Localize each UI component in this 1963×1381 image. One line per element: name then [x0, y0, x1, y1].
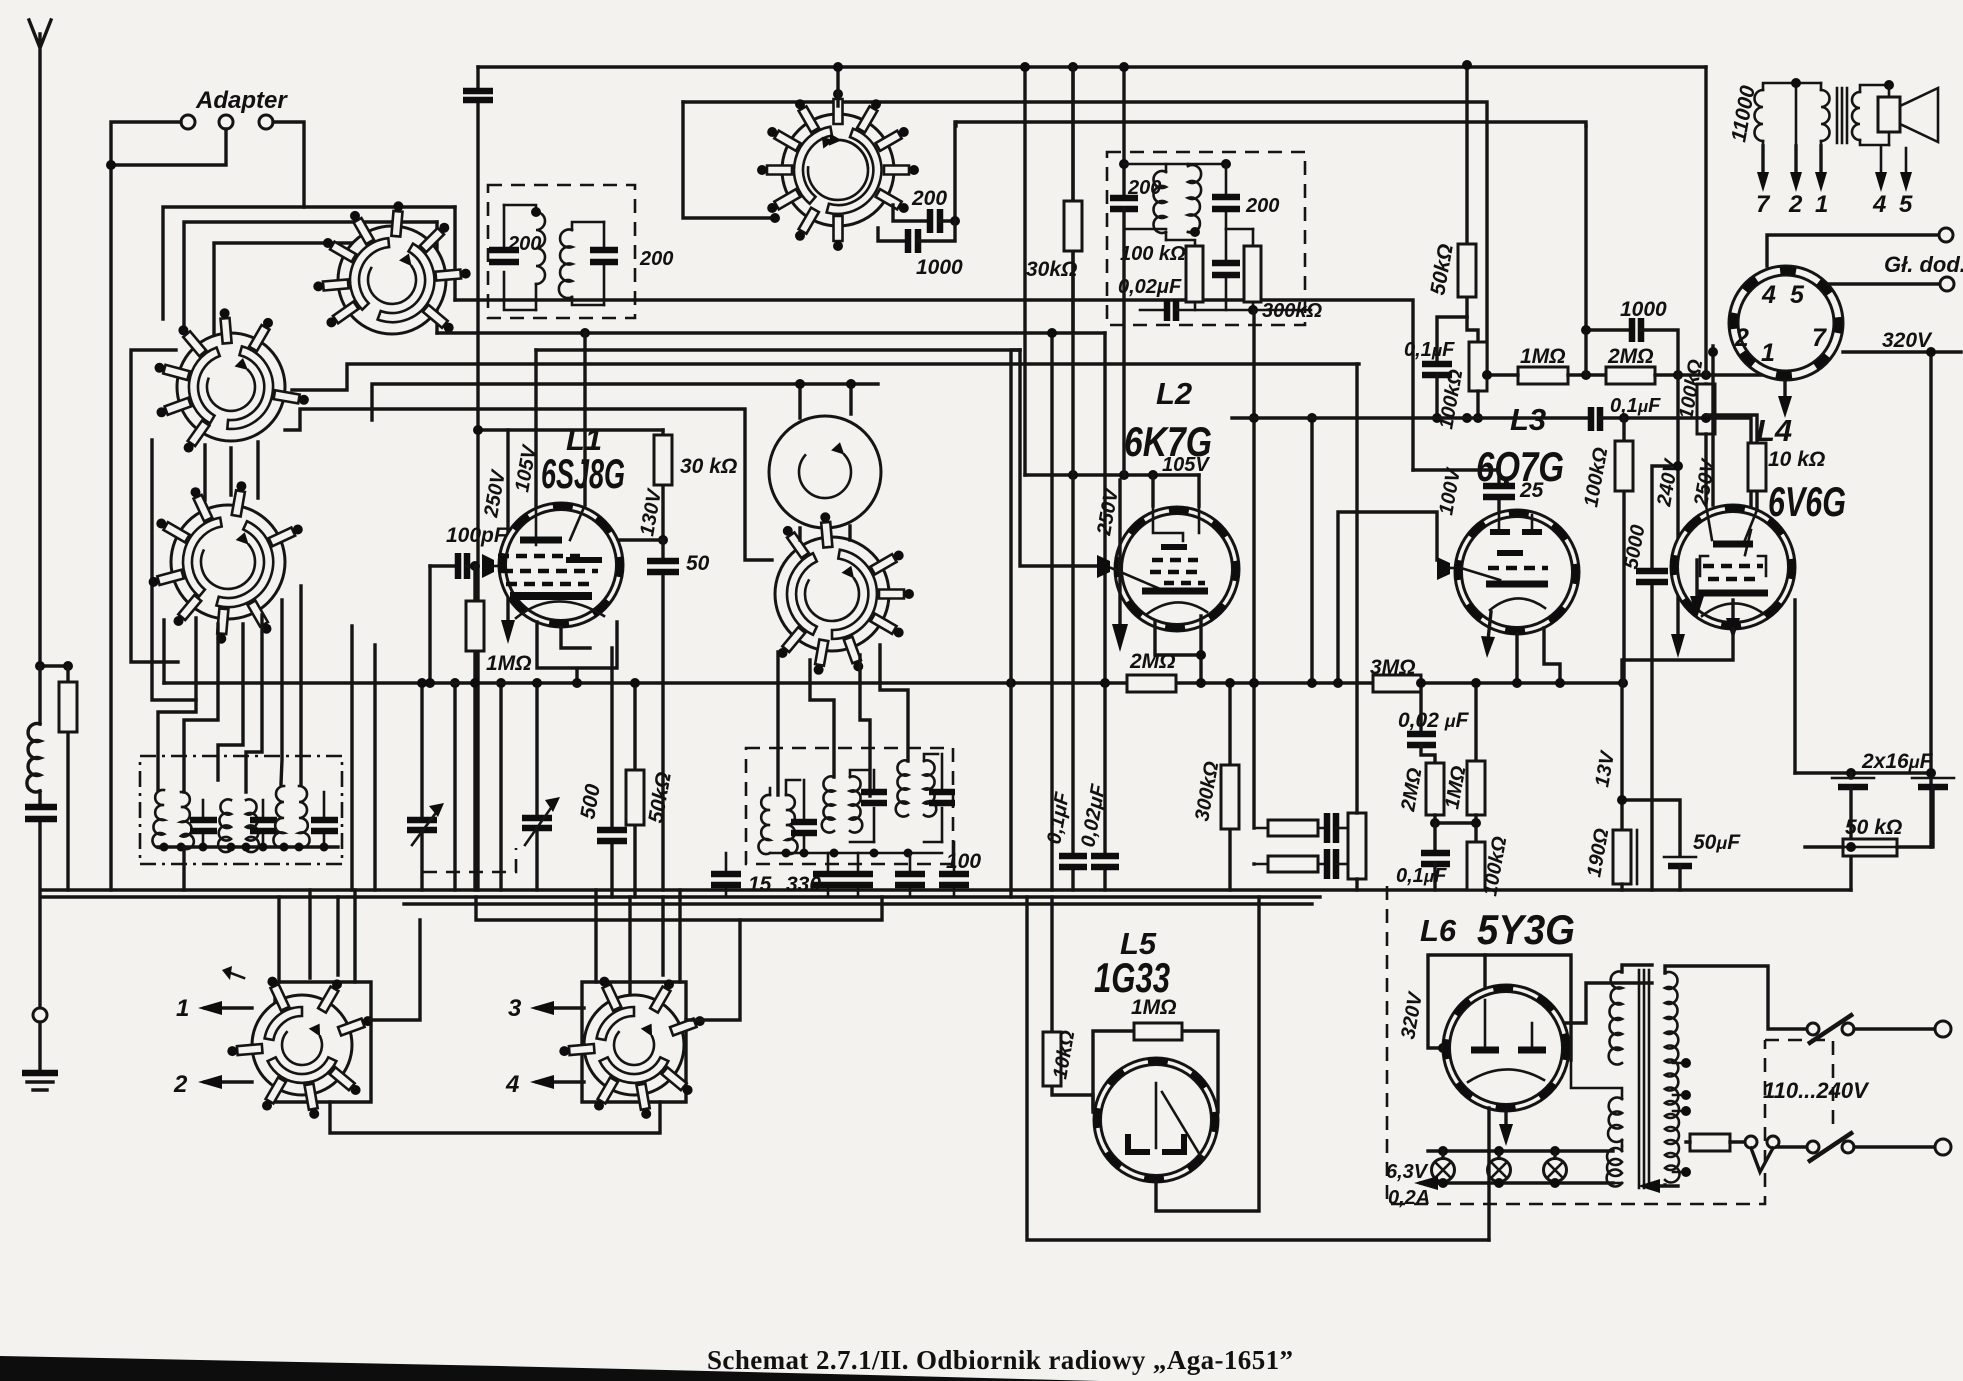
wire socket top [1767, 235, 1939, 266]
svg-text:50: 50 [686, 552, 710, 575]
capacitor 1000 (osc) [908, 229, 918, 253]
resistor (antenna shunt) [66, 666, 69, 890]
svg-text:0,2A: 0,2A [1388, 1187, 1430, 1209]
terminal adapter 2 [219, 115, 233, 129]
wire x1124 feed [1122, 67, 1125, 197]
wire S8 feeds [596, 890, 680, 1008]
wire S5-S6 links [800, 526, 850, 540]
wire y430 [478, 428, 663, 431]
svg-text:330: 330 [786, 873, 821, 896]
wire L6 bottom arrow [1504, 1111, 1507, 1128]
resistor 30kOhm (AGC) [1071, 67, 1074, 330]
wire arrow 4 [537, 1080, 584, 1083]
power transformer core [1639, 970, 1649, 1188]
resistor 1MOhm (grid leak) [1518, 367, 1568, 384]
inductor heater winding 1 [1608, 1098, 1622, 1142]
wire adapter right [273, 122, 304, 207]
wire x683 down [683, 102, 775, 218]
transformer core [1837, 88, 1847, 143]
svg-text:2x16μF: 2x16μF [1861, 750, 1934, 773]
capacitor det b [1327, 849, 1336, 879]
rotary switch S4 [757, 89, 919, 251]
svg-text:200: 200 [639, 248, 673, 270]
wire L3 cathode arrow [1488, 612, 1491, 640]
svg-text:0,02μF: 0,02μF [1118, 276, 1182, 298]
capacitor 100 [953, 842, 956, 897]
capacitor IF2 c3 [941, 754, 944, 842]
capacitor 0,1uF (coupling) [1591, 407, 1600, 431]
capacitor top-left [476, 67, 479, 890]
wire L1 plate feed [583, 333, 586, 505]
resistor mains dropper [1690, 1134, 1730, 1151]
wire S6 bottom feeds [778, 645, 908, 796]
capacitor 50 [661, 540, 664, 890]
wire S7 box [275, 982, 371, 1102]
capacitor 5000 [1652, 466, 1678, 890]
wire screen bus y475 [1025, 473, 1199, 476]
inductor IF1 primary [504, 205, 536, 212]
wire transformer arrows [1763, 146, 1821, 178]
svg-text:1000: 1000 [916, 256, 963, 279]
svg-text:4: 4 [1761, 281, 1776, 309]
resistor 2MOhm [1127, 675, 1176, 692]
wire IF1 connections [504, 300, 536, 310]
resistor IF3 100k [1186, 246, 1203, 302]
resistor 10kOhm (L5) [1052, 897, 1093, 1108]
rotary switch S3 [149, 481, 303, 644]
inductor primary winding [1665, 972, 1680, 1182]
svg-text:10 kΩ: 10 kΩ [1768, 448, 1825, 471]
wire adapter middle [111, 129, 226, 165]
wire L6 top feeds [1485, 955, 1652, 1046]
resistor 190 Ohm [1613, 830, 1631, 884]
inductor IF2 c1a [758, 795, 770, 854]
capacitor band 3 [323, 792, 326, 847]
wire S2-S3 links [205, 442, 258, 500]
wire primary top [1665, 966, 1806, 1029]
wire x1025 [1023, 67, 1026, 475]
svg-text:50 kΩ: 50 kΩ [1845, 816, 1902, 839]
wire L2 bottom [1155, 616, 1201, 683]
capacitor IF3 mid [1225, 229, 1228, 310]
wire arrow 2 [205, 1080, 252, 1083]
inductor band coil 3b [299, 786, 310, 848]
capacitor 200 (osc) [930, 209, 940, 233]
wire IF3 mid [1124, 229, 1195, 246]
inductor IF2 c3a [896, 760, 908, 816]
svg-text:Adapter: Adapter [195, 87, 288, 114]
svg-text:1MΩ: 1MΩ [1520, 345, 1566, 368]
inductor band coil 3a [273, 786, 284, 848]
svg-text:30kΩ: 30kΩ [1026, 258, 1077, 281]
wire x1489 from y1240 [1487, 1108, 1490, 1240]
capacitor det a [1327, 813, 1336, 843]
wire antenna branch [40, 664, 68, 667]
resistor 100kOhm [1467, 317, 1478, 342]
resistor 10kOhm [1706, 415, 1757, 510]
wire 250V rail [1711, 346, 1714, 505]
wire bottom loop [476, 897, 882, 920]
wire socket second [1810, 284, 1940, 297]
grid cap L1 [482, 554, 494, 578]
wire 320V rail [1843, 352, 1961, 847]
lamp 3 [1550, 1146, 1560, 1156]
wire S7 feeds [279, 890, 355, 982]
inductor output primary [1755, 90, 1764, 141]
svg-text:5: 5 [1899, 191, 1913, 218]
wire adapter left [111, 122, 181, 890]
svg-text:0,1μF: 0,1μF [1396, 865, 1447, 887]
svg-text:4: 4 [505, 1071, 519, 1098]
svg-text:5Y3G: 5Y3G [1477, 906, 1575, 953]
wire L3 grid feed [1338, 512, 1437, 683]
capacitor 0,1uF (L2 cathode) [1059, 856, 1087, 867]
svg-text:0,1μF: 0,1μF [1610, 395, 1661, 417]
wire S8 box [582, 982, 686, 1102]
node antenna/coil junction [35, 661, 45, 671]
svg-text:100pF: 100pF [446, 524, 508, 547]
wire band box bottom [158, 845, 338, 848]
capacitor 0,1uF (det) [1437, 317, 1467, 363]
capacitor (antenna series) [38, 791, 41, 1008]
capacitor row d [909, 853, 912, 897]
capacitor 0,1uF (bias) [1433, 823, 1436, 852]
capacitor 1000 (L3) [1586, 330, 1629, 375]
rotary switch S6 [775, 512, 914, 675]
wire S2-S3 left harness [131, 350, 178, 662]
wire S4 to cap 200 [893, 205, 926, 221]
inductor IF2 c2a [822, 776, 834, 832]
svg-text:2: 2 [1788, 191, 1803, 218]
resistor 2MOhm (bias) [1426, 763, 1444, 815]
wire AVC line [164, 681, 1623, 684]
capacitor 2x16uF b [1912, 777, 1954, 780]
wire y773 [1795, 771, 1931, 774]
wire x1011 [1011, 350, 1020, 897]
terminal adapter 3 [259, 115, 273, 129]
wire HV winding top [1622, 965, 1652, 972]
wire S4 to cap 1000 [878, 228, 904, 241]
wire ground bus 2 [42, 895, 1320, 898]
capacitor 500 [610, 648, 613, 897]
svg-text:2MΩ: 2MΩ [1607, 345, 1654, 368]
resistor 50kOhm (osc) [633, 683, 636, 897]
inductor HV secondary [1609, 972, 1622, 1065]
wire y350 [536, 348, 1020, 351]
svg-text:Schemat 2.7.1/II. Odbiornik: Schemat 2.7.1/II. Odbiornik radiowy „Aga… [707, 1345, 1293, 1375]
terminal Gl.dod 1 [1939, 228, 1953, 242]
wire heater top [1428, 1149, 1613, 1152]
capacitor IF2 c2 [873, 770, 876, 842]
wire below switch boxes [330, 1102, 660, 1133]
svg-text:2: 2 [1734, 324, 1749, 352]
voltage selector [1745, 1136, 1757, 1148]
inductor band coil 1a [152, 790, 164, 848]
svg-text:1MΩ: 1MΩ [1131, 996, 1177, 1019]
wire IF3 top link [1124, 163, 1226, 166]
wire top bus B+ [478, 65, 1706, 68]
wire S3 to band box feeds [158, 618, 196, 790]
inductor heater winding 2 [1607, 1148, 1622, 1186]
resistor 1MOhm (L5 leak) [1093, 1031, 1218, 1112]
wire S5 top stubs [800, 384, 851, 418]
wire S1 loop c [163, 207, 455, 319]
capacitor row c [857, 853, 860, 897]
wire speaker arrows [1881, 146, 1906, 178]
wire primary tap [1795, 83, 1798, 146]
svg-text:300kΩ: 300kΩ [1262, 300, 1322, 322]
capacitor band 1 [202, 800, 205, 847]
wire IF2 bottoms [770, 842, 942, 853]
dashed box power [1387, 886, 1765, 1204]
svg-text:L2: L2 [1156, 376, 1192, 411]
resistor det b [1268, 856, 1318, 872]
inductor IF3 secondary [1188, 165, 1201, 233]
terminal adapter 1 [181, 115, 195, 129]
tube L4 [1671, 505, 1795, 640]
inductor IF3 primary [1154, 171, 1167, 233]
svg-text:200: 200 [1245, 195, 1279, 217]
capacitor 2x16uF a [1832, 777, 1874, 780]
capacitor 0,02uF (L3 bias) [1419, 683, 1422, 733]
wire plate rail x1706 [1704, 67, 1707, 384]
wire 100pF left lead [428, 566, 431, 683]
wire bias node [1435, 815, 1476, 842]
socket (top view) [1729, 266, 1843, 380]
rotary switch S1 [313, 201, 470, 334]
wire long mid y364 [292, 364, 1359, 390]
capacitor IF2 c1 [803, 780, 806, 853]
grid cap L2 [1097, 555, 1110, 578]
svg-text:1: 1 [176, 995, 189, 1022]
svg-text:15: 15 [748, 873, 772, 896]
resistor 1MOhm (bias) [1474, 683, 1477, 761]
inductor IF2 c3b [924, 760, 936, 816]
wire 300k down [1252, 310, 1255, 864]
primary taps [1673, 1063, 1686, 1172]
terminal Gl.dod 2 [1940, 277, 1954, 291]
capacitor 50uF [1622, 800, 1680, 856]
svg-text:1: 1 [1815, 191, 1828, 218]
wire L2 cathode arrow [1118, 480, 1121, 628]
terminal (earth connector) [33, 1008, 47, 1022]
lamp 2 [1494, 1146, 1504, 1156]
capacitor 330 [827, 853, 830, 897]
tube L5 [1094, 1058, 1218, 1182]
capacitor IF1 right [603, 222, 606, 305]
tube L3 [1455, 510, 1579, 634]
wire S1 right leads [437, 207, 455, 333]
resistor det a [1268, 820, 1318, 836]
svg-text:200: 200 [507, 233, 541, 255]
lamp 1 [1438, 1146, 1448, 1156]
wire gang dashed link [422, 848, 516, 872]
capacitor 15 [725, 853, 728, 897]
svg-text:0,1μF: 0,1μF [1404, 339, 1455, 361]
capacitor 100pF [430, 564, 455, 567]
node 130V [658, 535, 668, 545]
wire L1 bottom [537, 622, 617, 683]
inductor IF1 secondary [559, 230, 572, 299]
resistor 3MOhm [1373, 675, 1421, 692]
resistor 100kOhm (L4 grid) [1697, 384, 1715, 434]
svg-text:2MΩ: 2MΩ [1129, 650, 1176, 673]
wire y102 [683, 102, 1487, 375]
wire arrow 1 [205, 1006, 252, 1009]
wire S4 top feed [836, 67, 839, 106]
svg-text:7: 7 [1756, 191, 1771, 218]
variable capacitor VC1 [420, 683, 423, 818]
svg-text:3: 3 [508, 995, 522, 1022]
wire x1052 long [1050, 333, 1053, 890]
wire arrow 3 [537, 1006, 584, 1009]
switch mains a [1807, 1023, 1819, 1035]
svg-text:105V: 105V [1162, 454, 1210, 476]
tube L1 [498, 503, 623, 627]
resistor 1 MOhm [473, 566, 476, 890]
svg-text:320V: 320V [1882, 329, 1933, 352]
resistor 2MOhm (grid) [1606, 367, 1655, 384]
svg-text:Gł. dod.: Gł. dod. [1884, 252, 1963, 277]
svg-text:1G33: 1G33 [1094, 954, 1170, 1001]
inductor band coil 2b [246, 799, 259, 852]
wire L4 right [1793, 600, 1796, 773]
resistor 50kOhm [1465, 65, 1468, 317]
rotary switch S5 [769, 416, 881, 528]
wire S1 loop b [184, 222, 437, 330]
svg-text:25: 25 [1519, 479, 1544, 502]
wire L6 box [1428, 955, 1571, 1060]
svg-text:L6: L6 [1420, 913, 1457, 948]
wire L1 screen feed [534, 350, 537, 509]
switch mains b [1807, 1141, 1819, 1153]
wire y300 to cap25 [1413, 468, 1499, 471]
inductor antenna coil [38, 666, 41, 724]
tube L2 [1111, 506, 1239, 631]
ground [38, 1022, 41, 1072]
svg-text:1MΩ: 1MΩ [486, 652, 532, 675]
wire S1 loop a [214, 243, 392, 340]
svg-text:100: 100 [946, 850, 981, 873]
antenna [29, 20, 51, 666]
svg-text:50μF: 50μF [1693, 831, 1741, 854]
terminal mains a [1935, 1021, 1951, 1037]
wire y300 [455, 300, 1413, 470]
wire L5 bottom [1156, 897, 1259, 1211]
terminal mains b [1935, 1139, 1951, 1155]
scan shadow [0, 1356, 1100, 1381]
svg-text:7: 7 [1812, 324, 1827, 352]
resistor 300kOhm (IF load) [1228, 683, 1231, 890]
capacitor 0,02 (IF3 bottom) [1140, 309, 1164, 312]
wire x1027 [1027, 897, 1489, 1240]
capacitor 0,02uF (L2) [1091, 856, 1119, 867]
wire L3 bottom [1517, 628, 1560, 683]
wire x1073 long [1071, 67, 1074, 890]
svg-text:6SJ8G: 6SJ8G [541, 450, 625, 497]
svg-text:2: 2 [173, 1071, 188, 1098]
wire harness extra verticals [352, 626, 501, 890]
wire IF3 cap down [1122, 209, 1125, 475]
svg-text:200: 200 [911, 187, 947, 210]
resistor 100kOhm (det load) [1622, 418, 1625, 683]
wire x1312 [1310, 418, 1313, 683]
svg-text:110...240V: 110...240V [1763, 1078, 1870, 1103]
wire AVC left end [162, 620, 165, 683]
rotary switch S7 [227, 977, 372, 1119]
wire L4 bottom [1622, 629, 1733, 830]
capacitor IF3 right 200 [1225, 164, 1228, 229]
wire grid feed [1020, 350, 1097, 566]
svg-text:100 kΩ: 100 kΩ [1120, 243, 1186, 265]
wire socket arrow [1783, 382, 1786, 400]
wire L1 cathode arrow [506, 430, 509, 625]
capacitor IF3 left 200 [1110, 198, 1138, 209]
capacitor 25 [1497, 470, 1500, 512]
tube L6 [1443, 985, 1569, 1111]
svg-text:6,3V: 6,3V [1386, 1161, 1429, 1183]
wire long mid y384 [372, 384, 878, 420]
capacitor band 2 [262, 800, 265, 847]
capacitor IF1 left [503, 205, 506, 300]
speaker [1884, 80, 1894, 90]
svg-text:5: 5 [1790, 281, 1805, 309]
wire heater bottom [1421, 1181, 1613, 1184]
inductor output secondary [1852, 92, 1860, 140]
resistor 50kOhm (tone) [1843, 839, 1897, 856]
svg-text:30 kΩ: 30 kΩ [680, 455, 737, 478]
variable capacitor VC2 [535, 683, 538, 816]
wire y333 [437, 331, 1105, 334]
resistor 100kOhm (bias) [1467, 842, 1485, 890]
dashed box band coils [140, 756, 342, 864]
svg-text:1: 1 [1761, 339, 1775, 367]
wire x1586 up [1584, 126, 1587, 330]
wire y126 [954, 122, 957, 126]
inductor output primary b [1821, 90, 1830, 141]
rotary switch S2 [155, 308, 309, 452]
wire x1108 [1103, 333, 1106, 890]
wire band box to bus [182, 847, 185, 890]
wire long mid y409 [285, 409, 772, 560]
resistor 30 kOhm (L1 anode) [661, 430, 664, 540]
grid cap L3 [1437, 557, 1450, 580]
wire y122 [955, 122, 1586, 221]
inductor band coil 2a [218, 799, 231, 852]
svg-text:1000: 1000 [1620, 298, 1667, 321]
svg-text:6V6G: 6V6G [1768, 478, 1846, 525]
wire 240V rail [1676, 375, 1679, 638]
resistor det c (volume) [1348, 813, 1366, 879]
wire primary bottom [1660, 1185, 1678, 1186]
wire ground bus 1 [42, 888, 1851, 891]
resistor IF3 300k [1244, 246, 1261, 302]
inductor IF2 c2b [850, 776, 862, 832]
wire L2 top pads [1153, 475, 1199, 506]
wire y418 [1232, 416, 1588, 419]
svg-text:4: 4 [1872, 191, 1886, 218]
inductor band coil 1b [181, 792, 194, 849]
svg-text:L3: L3 [1510, 402, 1546, 437]
inductor IF2 c1b [786, 795, 798, 854]
rotary switch S8 [559, 977, 705, 1119]
wire to tube [620, 538, 663, 541]
svg-text:0,02 μF: 0,02 μF [1398, 709, 1470, 732]
